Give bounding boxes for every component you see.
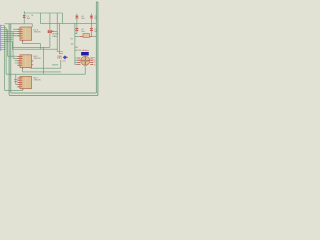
crystal osc label CRYSTAL (red) [57,55,62,60]
wire V x12.4 [11,42,13,50]
wire chip2 left feeds [8,56,18,63]
svg-text:C3: C3 [94,29,96,31]
motor M1 right pin labels (red) [93,58,95,67]
svg-text:P2: P2 [93,60,95,62]
capacitor C2 [75,28,78,31]
capacitor C3 label [94,29,97,33]
wire chip2 right net [31,62,61,68]
svg-text:10u: 10u [94,31,97,33]
wire below motor [6,66,85,74]
svg-text:24: 24 [31,15,33,17]
svg-text:10uF: 10uF [81,31,85,33]
chip U3 right+bottom pin stubs [23,61,34,69]
capacitor C3 [90,28,93,31]
wire motor feed vertical [75,23,77,64]
wire cap C4 column leads [76,14,78,34]
chip U2 body [20,27,32,40]
wire resistor net y36.4 [75,35,96,37]
svg-text:30pF: 30pF [27,18,31,20]
chip U4 left pin stubs [17,78,20,87]
svg-text:P4: P4 [93,64,95,66]
wire cap C1 lead [23,11,25,24]
capacitor C1 value note [31,15,33,17]
svg-text:R1: R1 [71,38,73,40]
svg-text:74HC595: 74HC595 [34,80,41,82]
wire V x57.2 XTAL1 drop [57,13,63,52]
chip U2 left pin stubs [17,29,20,36]
svg-text:10k: 10k [71,43,74,45]
motor M1 right pin stubs [90,58,93,65]
chip U4 bottom pin stub [22,89,24,90]
probe label [63,60,67,62]
wire rail y13 [24,12,63,14]
wire crystal X1 right lead [51,31,57,33]
motor M1 readout caption (red) [82,49,90,52]
svg-text:C1: C1 [27,16,29,18]
wire left rail y23.8 into U2 top pin [5,24,33,27]
svg-text:C2: C2 [81,29,83,31]
svg-text:P3: P3 [93,62,95,64]
svg-text:X1: X1 [52,31,54,33]
capacitor C2 label [81,29,85,33]
svg-text:C4: C4 [81,16,83,18]
capacitor C1 [23,15,25,18]
oscilloscope probe (blue) [63,55,68,59]
wire mid horiz y49.2 [12,48,57,50]
svg-text:12MHz: 12MHz [52,36,57,38]
svg-text:P1: P1 [93,58,95,60]
MCU U1 pin stubs [0,26,3,50]
chip U2 bottom pin stub [22,40,24,41]
crystal X1 [48,30,51,33]
wire V x43.4 [42,47,44,74]
svg-text:74HC595: 74HC595 [34,31,41,33]
svg-text:+88.8rpm: +88.8rpm [82,49,90,52]
MCU U1 body edge (off-screen left) [0,25,1,51]
chip U4 body [20,76,32,88]
net stub below probe (red) [60,60,62,62]
capacitor C5 label [94,16,97,20]
chip U2 label [34,29,41,33]
svg-text:74HC595: 74HC595 [34,58,41,60]
wire long rail y23.4 [40,22,96,24]
wire chip2 bottom route [23,68,61,72]
resistor R1 body [83,34,90,38]
capacitor C4 [75,16,78,19]
svg-text:XTAL2: XTAL2 [57,57,62,60]
motor M1 reference label [75,47,82,52]
svg-text:M1: M1 [75,47,78,49]
sheet border outer [9,2,98,95]
wire crystal X1 vertical leads [49,13,51,47]
capacitor C4 label [81,16,85,20]
wire left bus verticals [5,26,8,91]
wire mid horiz y47.3 [12,46,50,48]
wire chip3 bottom route [5,89,23,91]
wire chip1 bottom route [23,40,41,49]
wire cap C5 column leads [90,14,92,37]
chip U3 body [20,55,32,68]
resistor R1 label [71,38,74,45]
capacitor C1 label [27,16,31,20]
chip U3 label [34,56,41,60]
motor M1 body [81,56,90,65]
wire V x40.4 rail join [39,13,41,23]
chip U4 label [34,78,41,82]
wire V x58.9 XTAL2 drop [59,23,63,53]
wire V x62.7 rail join [62,13,64,23]
motor M1 speed display (blue bar) [81,52,88,55]
crystal X1 label [52,31,59,38]
wire MCU pin row feeds [3,26,16,50]
wire chip1 left feeds [13,29,17,58]
resistor R1 pins [80,35,92,37]
chip U3 left pin stubs [17,56,20,65]
svg-text:10uF: 10uF [81,18,85,20]
wire chip3 left feeds [14,74,17,84]
svg-text:C5: C5 [94,16,96,18]
svg-text:10u: 10u [94,18,97,20]
capacitor C5 [90,16,93,19]
motor M1 left pin stubs [77,58,80,65]
wire xtal area stubs [52,64,58,66]
sheet border inner [11,2,97,93]
